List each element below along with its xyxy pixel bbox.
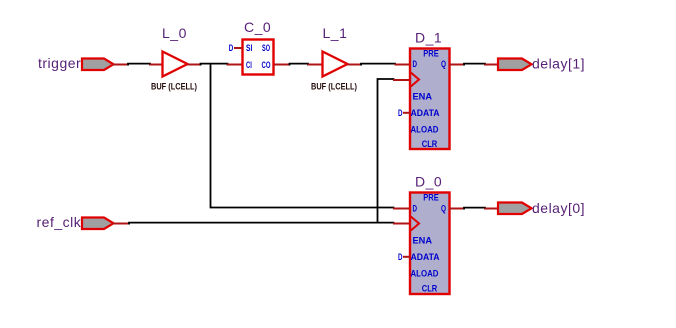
svg-text:D_1: D_1 — [415, 30, 442, 46]
svg-text:SO: SO — [262, 43, 270, 53]
svg-text:D_0: D_0 — [415, 174, 442, 190]
unconnected input marker D at C_0 SI — [229, 43, 242, 53]
svg-text:BUF (LCELL): BUF (LCELL) — [151, 81, 197, 91]
svg-text:D: D — [398, 108, 403, 118]
svg-text:D: D — [229, 43, 234, 53]
svg-text:PRE: PRE — [423, 49, 439, 59]
svg-text:ALOAD: ALOAD — [411, 125, 439, 135]
svg-text:CLR: CLR — [422, 284, 438, 294]
input pin trigger — [38, 55, 114, 71]
wire D_0 Q to delay[0] — [450, 208, 499, 210]
svg-text:ALOAD: ALOAD — [411, 269, 439, 279]
wire D_1 Q to delay[1] — [450, 64, 499, 66]
svg-text:Q: Q — [441, 204, 446, 214]
output pin delay[1] — [498, 56, 585, 72]
svg-text:trigger: trigger — [38, 55, 81, 71]
unconnected input marker D at D_0 ADATA — [398, 252, 410, 262]
wire net L_0 output branch to D_0 D input — [211, 64, 411, 209]
svg-text:ADATA: ADATA — [411, 108, 440, 118]
svg-text:ref_clk: ref_clk — [37, 214, 82, 230]
svg-text:Q: Q — [441, 59, 446, 69]
svg-text:CLR: CLR — [422, 139, 438, 149]
buffer L_1 — [311, 25, 357, 91]
wire ref_clk net to D_1 clock — [378, 79, 411, 223]
svg-text:CI: CI — [246, 60, 252, 70]
svg-text:SI: SI — [246, 43, 252, 53]
wire ref_clk to D_0 clock — [113, 223, 411, 225]
svg-text:D: D — [413, 204, 418, 214]
output pin delay[0] — [498, 200, 585, 216]
svg-text:L_0: L_0 — [162, 25, 187, 41]
svg-text:D: D — [413, 59, 418, 69]
wire L_1 output to D_1 D input — [348, 64, 411, 66]
svg-text:delay[1]: delay[1] — [532, 56, 585, 72]
buffer L_0 — [151, 25, 197, 91]
flip-flop D_0 — [410, 174, 450, 295]
input pin ref_clk — [37, 214, 114, 230]
wire trigger to L_0 — [113, 64, 164, 66]
svg-text:ENA: ENA — [413, 92, 433, 102]
svg-text:ENA: ENA — [413, 236, 433, 246]
svg-text:C_0: C_0 — [244, 19, 271, 35]
wire L_0 output to C_0 CI — [188, 64, 243, 66]
svg-text:CO: CO — [262, 60, 271, 70]
svg-text:D: D — [398, 252, 403, 262]
flip-flop D_1 — [410, 30, 450, 150]
svg-text:PRE: PRE — [423, 193, 439, 203]
unconnected input marker D at D_1 ADATA — [398, 108, 410, 118]
svg-text:delay[0]: delay[0] — [532, 200, 585, 216]
svg-text:ADATA: ADATA — [411, 252, 440, 262]
svg-text:L_1: L_1 — [323, 25, 348, 41]
component C_0 — [243, 19, 274, 75]
svg-text:BUF (LCELL): BUF (LCELL) — [311, 81, 357, 91]
wire C_0 CO to L_1 — [274, 64, 323, 66]
